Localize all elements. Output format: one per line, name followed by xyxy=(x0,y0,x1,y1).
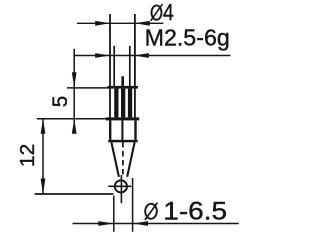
12-dim bottom reference line (ball bottom) xyxy=(35,193,114,195)
shoulder line (thread / collar), 5-dim top reference xyxy=(67,87,108,89)
extension line left (stem Ø4 edge) xyxy=(109,14,111,118)
arrowhead D4 top (down) xyxy=(72,72,77,87)
extension line left (ball Ø) xyxy=(113,196,115,232)
ball horizontal centre line xyxy=(108,185,131,187)
taper right edge xyxy=(127,142,134,177)
knurled collar bar 1 xyxy=(114,89,118,118)
arrowhead D4 bottom (up) xyxy=(72,119,77,134)
dimension line D2 (M2.5-6g) xyxy=(74,55,230,57)
dimension line D1 (Ø4) xyxy=(77,22,163,24)
svg-text:1-6.5: 1-6.5 xyxy=(163,197,227,225)
dimension line D4 (5) vertical xyxy=(73,49,75,134)
thread core bar xyxy=(121,76,124,86)
arrowhead D2 right xyxy=(134,53,149,58)
dimension line D5 (12) vertical xyxy=(42,119,44,194)
arrowhead D1 left xyxy=(95,21,110,26)
ball vertical centre line xyxy=(120,175,122,203)
neck bottom shoulder xyxy=(108,140,137,143)
arrowhead D3 right xyxy=(133,221,148,226)
arrowhead D2 left xyxy=(95,53,110,58)
knurled collar bar 2 xyxy=(121,89,125,118)
neck left edge xyxy=(109,120,111,139)
extension line right (ball Ø) xyxy=(132,178,134,232)
collar bottom shoulder, 12-dim top reference line xyxy=(37,118,106,120)
arrowhead D5 top (up) xyxy=(41,119,46,134)
taper left edge xyxy=(111,142,119,177)
svg-text:4: 4 xyxy=(163,0,174,25)
neck right edge xyxy=(134,120,136,139)
taper centre line (dashed) xyxy=(122,142,124,175)
label Ø1-6.5 xyxy=(145,197,227,225)
arrowhead D3 left xyxy=(98,221,113,226)
ball tip circle xyxy=(115,180,127,192)
arrowhead D5 bottom (down) xyxy=(41,179,46,195)
thread flank line left xyxy=(113,46,115,86)
label Ø4 xyxy=(151,0,174,25)
extension line right (stem Ø4 edge) xyxy=(134,14,136,118)
knurled collar bar 3 xyxy=(128,89,132,118)
arrowhead D1 right xyxy=(135,21,150,26)
svg-text:12: 12 xyxy=(16,144,39,167)
thread flank line right xyxy=(129,46,131,86)
svg-text:5: 5 xyxy=(48,96,72,108)
svg-text:M2.5-6g: M2.5-6g xyxy=(145,25,230,51)
neck centre line xyxy=(121,120,123,139)
dimension line D3 (Ø1-6.5) xyxy=(73,223,239,225)
